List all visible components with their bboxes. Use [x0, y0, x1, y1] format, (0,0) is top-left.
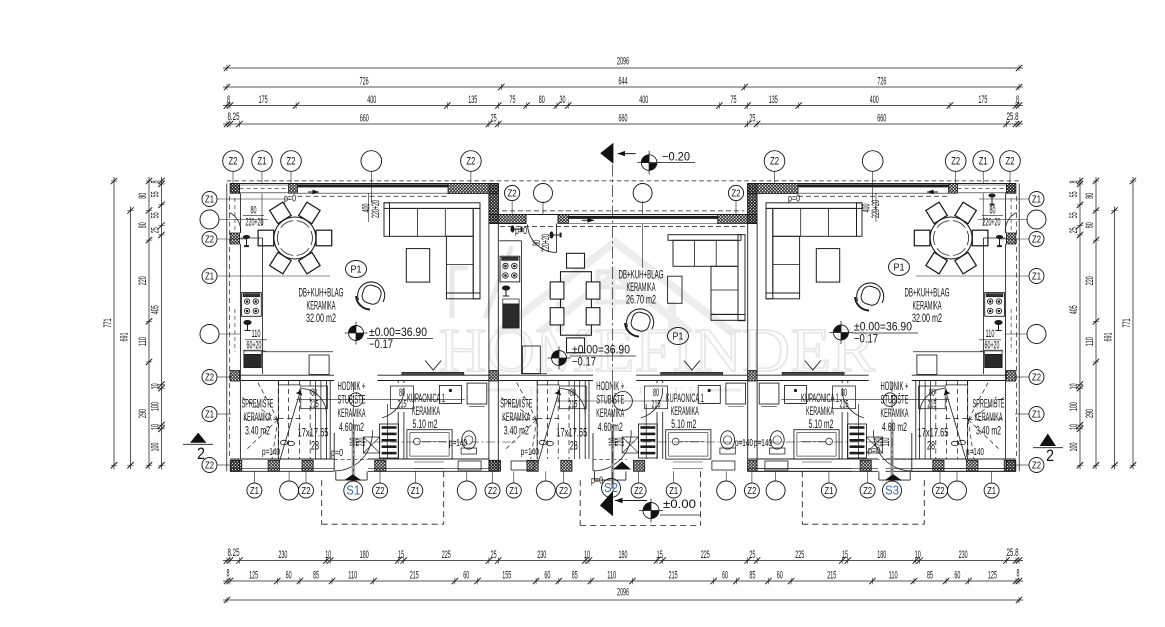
svg-text:220+20: 220+20 [870, 200, 882, 218]
svg-text:S3: S3 [885, 483, 899, 498]
svg-text:5.10 m2: 5.10 m2 [809, 417, 834, 431]
centre faucet [502, 286, 509, 296]
svg-text:KERAMIKA: KERAMIKA [806, 404, 834, 418]
dim top 660 row [223, 123, 1023, 125]
hatched pier bottom [561, 460, 572, 471]
svg-text:Z1: Z1 [411, 486, 420, 497]
svg-text:8: 8 [1016, 94, 1019, 106]
kitchen counter [983, 237, 1005, 239]
dim bottom row1 [223, 560, 1023, 562]
svg-text:Z1: Z1 [669, 486, 678, 497]
svg-text:644: 644 [619, 75, 628, 87]
bubble Z2 bottom [631, 483, 646, 498]
svg-text:110: 110 [348, 569, 357, 581]
svg-text:2: 2 [1046, 446, 1054, 465]
svg-text:KERAMIKA: KERAMIKA [881, 406, 909, 420]
svg-text:Z1: Z1 [509, 486, 518, 497]
shower closet [467, 383, 487, 404]
svg-text:KUPAONICA 1: KUPAONICA 1 [666, 391, 704, 405]
spremiste storage dashed rays [516, 381, 537, 420]
party wall [488, 184, 490, 472]
svg-text:85: 85 [749, 569, 755, 581]
entrance door leaf and arc [592, 433, 594, 471]
svg-text:15: 15 [398, 549, 404, 561]
svg-text:Z2: Z2 [559, 486, 568, 497]
svg-text:230: 230 [959, 549, 968, 561]
section line S3 [891, 382, 893, 473]
radiator [858, 404, 860, 459]
terrace dashed centre [579, 480, 581, 525]
wall stairs/hodnik [325, 381, 327, 460]
bubble o right [1027, 325, 1046, 344]
washbasin [785, 386, 807, 404]
svg-text:S1: S1 [346, 483, 360, 498]
interior wall [499, 374, 593, 376]
svg-text:8: 8 [1068, 181, 1080, 184]
window small top [958, 184, 1007, 186]
radiator [645, 404, 647, 459]
svg-text:Z1: Z1 [824, 486, 833, 497]
svg-text:3.40 m2: 3.40 m2 [976, 423, 1001, 437]
svg-text:215: 215 [398, 399, 407, 411]
svg-text:8.25: 8.25 [228, 111, 240, 123]
svg-text:215: 215 [410, 569, 419, 581]
svg-text:4.60 m2: 4.60 m2 [339, 420, 364, 434]
partition spremiste/stairs [967, 381, 969, 460]
hatched pier bottom [634, 460, 645, 471]
wall stairs/hodnik [919, 381, 921, 460]
S1 bubble [344, 481, 363, 500]
svg-text:Z1: Z1 [250, 486, 259, 497]
bubble o bottom [948, 481, 967, 500]
S3 bubble [883, 481, 902, 500]
bubble Z1 bottom [821, 483, 836, 498]
hatched pier bottom [527, 460, 538, 471]
svg-text:80: 80 [570, 387, 576, 399]
bubble o row2 [633, 184, 652, 203]
bubble o top [361, 151, 382, 172]
bubble Z1 right [1029, 192, 1044, 207]
outside step rects [458, 461, 481, 470]
svg-text:Z2: Z2 [732, 188, 741, 199]
svg-text:SPREMIŠTE: SPREMIŠTE [973, 396, 1005, 411]
svg-text:5.10 m2: 5.10 m2 [413, 417, 438, 431]
entrance porch [878, 471, 880, 480]
svg-text:180: 180 [619, 549, 628, 561]
svg-text:400: 400 [870, 94, 879, 106]
stove [242, 293, 262, 317]
sink [244, 355, 261, 368]
stair door arc [560, 389, 585, 414]
svg-text:−0.17: −0.17 [572, 357, 596, 369]
svg-text:80: 80 [539, 94, 545, 106]
centre kitchen counter [499, 240, 521, 242]
svg-text:215: 215 [669, 569, 678, 581]
svg-text:75: 75 [731, 94, 737, 106]
svg-text:80: 80 [399, 387, 405, 399]
door arc side wall [230, 213, 241, 234]
bubble Z2 bottom [373, 483, 388, 498]
bubble Z2 bottom [744, 483, 759, 498]
bubble Z2 bottom [860, 483, 875, 498]
svg-text:Z2: Z2 [205, 372, 214, 383]
svg-text:Z2: Z2 [936, 486, 945, 497]
faucet [995, 321, 1002, 331]
bubble o bottom [280, 481, 299, 500]
svg-text:60: 60 [722, 569, 728, 581]
svg-text:25: 25 [1068, 227, 1080, 233]
window 400 thick band [298, 184, 449, 187]
svg-text:Z2: Z2 [1032, 372, 1041, 383]
svg-text:8: 8 [227, 94, 230, 106]
svg-text:p=140: p=140 [449, 438, 467, 449]
bubble Z2 top [945, 151, 966, 172]
svg-text:110: 110 [137, 337, 149, 346]
section line S2 [612, 144, 614, 488]
svg-text:Z2: Z2 [466, 156, 475, 168]
bubble Z2 top [1000, 151, 1021, 172]
partition spremiste/stairs [277, 381, 279, 460]
svg-text:125: 125 [988, 569, 997, 581]
svg-text:80: 80 [841, 387, 847, 399]
svg-text:10: 10 [915, 549, 921, 561]
svg-text:p=140: p=140 [521, 447, 539, 458]
svg-text:110: 110 [607, 569, 616, 581]
sofa L [766, 203, 862, 209]
svg-text:405: 405 [1068, 305, 1080, 314]
svg-text:KERAMIKA: KERAMIKA [596, 406, 624, 420]
fridge [309, 355, 329, 375]
svg-text:80: 80 [929, 387, 935, 399]
shower closet [759, 383, 779, 404]
bubble o top [862, 151, 883, 172]
party wall [747, 184, 749, 472]
centre stove [500, 256, 520, 282]
svg-text:30: 30 [560, 94, 566, 106]
bubble Z1 bottom [984, 483, 999, 498]
bubble Z1 bottom [666, 483, 681, 498]
bubble Z2 left [202, 458, 217, 473]
svg-text:220+20: 220+20 [983, 217, 1001, 229]
centre dining table [561, 272, 592, 336]
S2 flag bottom [600, 491, 613, 517]
centre sofa [668, 235, 741, 241]
hatched pier side wall [1006, 461, 1015, 472]
svg-text:Z2: Z2 [205, 234, 214, 245]
hatched pier bottom [489, 460, 500, 471]
svg-text:17x17.65: 17x17.65 [298, 426, 329, 440]
top flag [600, 143, 613, 164]
exterior side wall [226, 184, 228, 472]
dim top fine [223, 105, 1023, 107]
svg-text:60: 60 [544, 569, 550, 581]
svg-text:HODNIK +: HODNIK + [596, 379, 624, 393]
svg-text:15: 15 [657, 549, 663, 561]
svg-text:28: 28 [311, 439, 319, 453]
svg-text:10: 10 [584, 549, 590, 561]
svg-text:HODNIK +: HODNIK + [881, 379, 909, 393]
svg-text:215: 215 [310, 399, 319, 411]
svg-text:80: 80 [251, 205, 257, 217]
svg-text:±0.00=36.90: ±0.00=36.90 [854, 322, 912, 334]
svg-text:Z2: Z2 [863, 486, 872, 497]
dim bottom row2 [223, 580, 1023, 582]
svg-text:Z1: Z1 [258, 156, 267, 168]
svg-text:15: 15 [842, 549, 848, 561]
centre entrance door [525, 215, 527, 224]
svg-text:691: 691 [119, 333, 131, 342]
level -0.20 [641, 155, 649, 163]
hatched pier bottom [231, 460, 242, 471]
svg-text:225: 225 [701, 549, 710, 561]
svg-text:p=140: p=140 [966, 447, 984, 458]
hatched pier bottom [860, 460, 871, 471]
svg-text:KERAMIKA: KERAMIKA [671, 404, 699, 418]
wall hodnik/kupaonica [397, 412, 399, 459]
svg-text:110: 110 [889, 569, 898, 581]
bottom wall left unit [230, 458, 334, 460]
section line S2 gray [611, 424, 614, 489]
svg-text:10: 10 [150, 383, 162, 389]
bubble Z2 right [1029, 370, 1044, 385]
svg-text:220+20: 220+20 [370, 200, 382, 218]
svg-text:220: 220 [614, 438, 626, 447]
door sill plugs [243, 235, 250, 247]
wall hodnik/kupaonica [656, 412, 658, 459]
section line S1 [352, 382, 354, 473]
hatched pier corner [230, 184, 239, 194]
left coffee table [406, 249, 429, 283]
svg-text:17x17.65: 17x17.65 [918, 426, 949, 440]
hatched pier right [718, 215, 757, 224]
svg-text:2096: 2096 [617, 56, 629, 68]
svg-text:Z1: Z1 [205, 194, 214, 205]
svg-text:4.60 m2: 4.60 m2 [882, 420, 907, 434]
svg-text:220: 220 [137, 276, 149, 285]
svg-text:771: 771 [102, 319, 114, 328]
hatched corner L [748, 184, 798, 194]
svg-text:110: 110 [986, 328, 995, 340]
sink [985, 355, 1002, 368]
svg-text:Z2: Z2 [1032, 460, 1041, 471]
svg-text:55: 55 [150, 212, 162, 218]
bubble Z2 row2 [504, 185, 519, 200]
hatched pier bottom [933, 460, 944, 471]
svg-text:10: 10 [150, 424, 162, 430]
svg-text:60: 60 [777, 569, 783, 581]
svg-text:p=140: p=140 [735, 438, 753, 449]
tv sideboard [782, 372, 844, 375]
svg-text:155: 155 [502, 569, 511, 581]
svg-text:Z1: Z1 [205, 409, 214, 420]
svg-text:60: 60 [463, 569, 469, 581]
stove [985, 293, 1005, 317]
hatched pier side wall [230, 184, 239, 194]
bubble o bottom [457, 481, 476, 500]
kitchen counter [240, 237, 262, 239]
washing machine [622, 437, 638, 453]
hatched pier side wall [1006, 371, 1015, 382]
svg-text:−0.17: −0.17 [854, 334, 878, 346]
svg-text:KUPAONICA 1: KUPAONICA 1 [407, 391, 445, 405]
stair direction arrow [946, 391, 968, 464]
svg-text:Z2: Z2 [747, 486, 756, 497]
bubble Z1 right [1029, 269, 1044, 284]
toilet [770, 448, 785, 454]
svg-text:4.60 m2: 4.60 m2 [598, 420, 623, 434]
dim bottom 2096 [223, 599, 1023, 601]
bubble o bottom [717, 481, 736, 500]
svg-text:726: 726 [877, 75, 886, 87]
svg-text:KERAMIKA: KERAMIKA [338, 406, 366, 420]
hatched corner L [448, 184, 498, 194]
window small top [240, 184, 289, 186]
svg-text:85: 85 [927, 569, 933, 581]
armchair [627, 309, 654, 329]
centre unit top wall [489, 214, 757, 216]
bubble Z1 top [252, 151, 273, 172]
section mark 2 right [1040, 434, 1056, 447]
hatched pier bottom [302, 460, 313, 471]
svg-text:8.25: 8.25 [228, 547, 240, 559]
dining table round [274, 217, 316, 259]
S3 triangle [884, 474, 902, 480]
svg-text:215: 215 [568, 399, 577, 411]
svg-text:230: 230 [278, 549, 287, 561]
svg-text:p=140: p=140 [262, 447, 280, 458]
hatched pier side wall [230, 233, 239, 244]
svg-text:28: 28 [570, 439, 578, 453]
hatched pier bottom [1004, 460, 1015, 471]
svg-text:60+20: 60+20 [247, 340, 262, 352]
svg-text:p=0: p=0 [591, 476, 603, 487]
bubble Z2 right [1029, 232, 1044, 247]
svg-text:125: 125 [249, 569, 258, 581]
bubble Z1 bottom [506, 483, 521, 498]
svg-text:180: 180 [877, 549, 886, 561]
interior wall [240, 374, 334, 376]
svg-text:80: 80 [137, 193, 149, 199]
centre fridge [522, 346, 540, 374]
bathtub [666, 430, 711, 459]
svg-text:10: 10 [325, 549, 331, 561]
svg-text:400: 400 [367, 94, 376, 106]
armchair [358, 282, 385, 302]
right coffee table [816, 249, 839, 283]
hatched pier side wall [1006, 184, 1015, 194]
svg-text:25: 25 [491, 549, 497, 561]
window bottom wall [414, 461, 444, 463]
svg-text:p=0: p=0 [284, 194, 296, 205]
svg-text:55: 55 [150, 191, 162, 197]
interior wall [912, 374, 1006, 376]
svg-text:8: 8 [1017, 568, 1020, 580]
svg-text:80: 80 [137, 222, 149, 228]
svg-text:p=0: p=0 [788, 194, 800, 205]
bubble o right [1027, 210, 1046, 229]
svg-text:Z2: Z2 [488, 486, 497, 497]
svg-text:290: 290 [1084, 409, 1096, 418]
dining table round [930, 217, 972, 259]
bubble Z2 bottom [485, 483, 500, 498]
partition spremiste/stairs [536, 381, 538, 460]
svg-text:Z1: Z1 [1032, 409, 1041, 420]
svg-text:Z2: Z2 [287, 156, 296, 168]
svg-text:Z2: Z2 [508, 188, 517, 199]
bathtub [794, 430, 839, 459]
bubble Z2 bottom [556, 483, 571, 498]
bubble o left [200, 325, 219, 344]
left dim col [113, 177, 115, 469]
right unit top wall [748, 183, 1016, 185]
svg-text:225: 225 [795, 549, 804, 561]
stairs [945, 384, 967, 386]
svg-text:100: 100 [1068, 443, 1080, 452]
svg-text:P1: P1 [673, 331, 684, 343]
fixtures axis dashdot [358, 441, 516, 443]
hodnik leader circles [349, 393, 363, 407]
svg-text:Z2: Z2 [1006, 156, 1015, 168]
bubble o left [200, 210, 219, 229]
sofa L [384, 203, 480, 209]
svg-text:60+20: 60+20 [985, 340, 1000, 352]
svg-text:135: 135 [468, 94, 477, 106]
svg-text:KERAMIKA: KERAMIKA [412, 404, 440, 418]
faucet [244, 321, 251, 331]
window arrows [308, 191, 319, 193]
shower closet [726, 383, 746, 404]
bubble Z2 left [202, 232, 217, 247]
hatched pier side wall [230, 371, 239, 382]
top eaves dashed line [227, 180, 1019, 182]
spremiste storage dashed rays [968, 381, 989, 420]
hatched pier side wall [230, 461, 239, 472]
window bottom wall [802, 461, 832, 463]
svg-text:Z1: Z1 [987, 486, 996, 497]
svg-text:55: 55 [1068, 212, 1080, 218]
svg-text:Z2: Z2 [302, 486, 311, 497]
svg-text:S2: S2 [604, 480, 618, 495]
svg-text:KERAMIKA: KERAMIKA [975, 410, 1003, 424]
svg-text:5.10 m2: 5.10 m2 [671, 417, 696, 431]
svg-text:180: 180 [360, 549, 369, 561]
svg-text:175: 175 [259, 94, 268, 106]
svg-text:225: 225 [442, 549, 451, 561]
bubble Z1 top [973, 151, 994, 172]
door arc side wall [1005, 213, 1016, 234]
terrace dashed left [321, 480, 323, 524]
svg-text:60: 60 [286, 569, 292, 581]
armchair [857, 283, 884, 303]
svg-text:Z2: Z2 [229, 156, 238, 168]
vent mark [425, 361, 441, 371]
P1 bubbles [346, 261, 367, 278]
hatched pier bottom [967, 460, 978, 471]
level ±0.00 bottom [643, 503, 651, 511]
svg-text:25: 25 [150, 227, 162, 233]
hatched pier corner [1006, 184, 1015, 194]
toilet [720, 448, 735, 454]
tv sideboard [402, 372, 464, 375]
tv sideboard [661, 372, 723, 375]
svg-text:±0.00=36.90: ±0.00=36.90 [369, 327, 427, 339]
hatched pier bottom [268, 460, 279, 471]
svg-text:p=140: p=140 [754, 438, 772, 449]
svg-text:p=0: p=0 [515, 226, 527, 237]
bubble Z1 left [202, 407, 217, 422]
bubble Z1 left [202, 269, 217, 284]
washing machine [363, 437, 379, 453]
